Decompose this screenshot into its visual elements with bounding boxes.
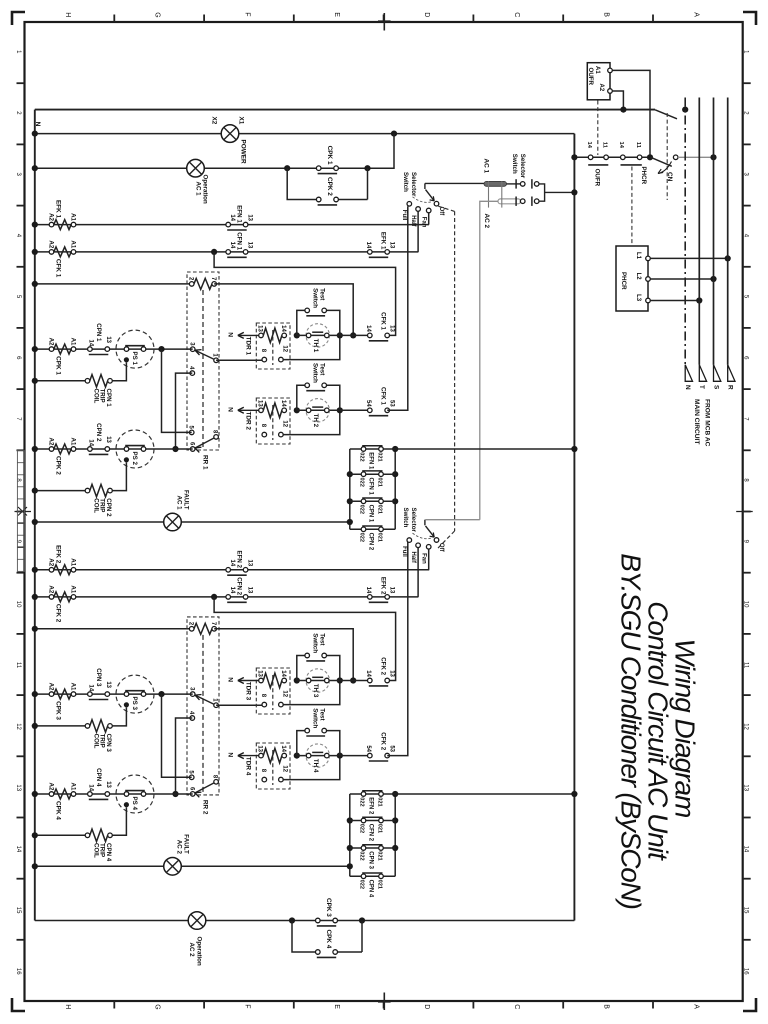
contact CFK1 13-14	[340, 312, 395, 341]
cam gang links	[489, 181, 502, 207]
svg-text:CPN 1: CPN 1	[95, 323, 102, 342]
svg-text:AC 2: AC 2	[483, 214, 490, 229]
svg-text:C: C	[513, 12, 520, 17]
svg-text:Half: Half	[410, 215, 416, 227]
svg-text:CFN 1: CFN 1	[236, 232, 243, 250]
svg-text:PHCR: PHCR	[620, 272, 627, 290]
coil CPK3	[48, 683, 77, 721]
wire RR1-4 riser	[172, 373, 192, 452]
svg-text:CPK 3: CPK 3	[55, 701, 62, 720]
contact EFK1 13-14 aux	[365, 232, 395, 257]
coil CPN4 TRIP COIL	[85, 807, 126, 861]
svg-text:13: 13	[105, 436, 111, 443]
svg-text:TH 1: TH 1	[312, 339, 319, 353]
svg-text:TDR 2: TDR 2	[244, 412, 251, 431]
svg-text:TH 2: TH 2	[312, 414, 319, 428]
svg-text:13: 13	[257, 325, 263, 332]
svg-text:D: D	[423, 12, 430, 17]
svg-text:14: 14	[618, 142, 624, 149]
coil CPN2 TRIP COIL	[85, 462, 126, 517]
svg-text:022: 022	[359, 824, 365, 833]
svg-text:Test: Test	[319, 708, 326, 720]
svg-text:14: 14	[15, 846, 21, 853]
svg-text:022: 022	[359, 478, 365, 487]
svg-text:13: 13	[257, 745, 263, 752]
svg-text:CPN 2: CPN 2	[95, 423, 102, 442]
contact CPN3 14-13	[88, 668, 112, 699]
svg-text:A1: A1	[70, 782, 77, 790]
pressure switch PS4	[116, 775, 154, 813]
wire rung to RR2-2	[32, 626, 192, 632]
wire L2 to phase S	[650, 276, 716, 282]
svg-text:12: 12	[282, 690, 288, 697]
svg-text:COIL: COIL	[92, 498, 99, 513]
svg-text:CFK 2: CFK 2	[380, 732, 387, 750]
svg-text:A1: A1	[70, 437, 77, 445]
svg-text:10: 10	[15, 601, 21, 608]
selector cam AC1 (pill)	[483, 159, 507, 187]
svg-text:R: R	[727, 385, 734, 390]
wire CPN3 trip coil rung	[32, 723, 88, 729]
contact EFN1 13-14	[226, 205, 253, 230]
disconnect CN blade upper	[655, 107, 688, 119]
svg-text:AC 2: AC 2	[175, 840, 182, 855]
svg-text:13: 13	[247, 214, 253, 221]
node tap to CFK1-13 riser	[211, 249, 396, 336]
svg-text:A1: A1	[70, 213, 77, 221]
wire power lamp rung	[32, 131, 575, 137]
wire FAULT AC1 rung	[32, 519, 350, 525]
pressure switch PS3	[116, 675, 154, 713]
wire top feed rung	[35, 109, 655, 111]
svg-text:EFN 1: EFN 1	[236, 205, 243, 223]
svg-text:14: 14	[365, 587, 371, 594]
coil CPK4	[48, 782, 77, 820]
svg-text:PS 1: PS 1	[131, 352, 138, 366]
svg-text:CFN 2: CFN 2	[367, 824, 373, 842]
svg-text:13: 13	[388, 325, 394, 332]
svg-text:021: 021	[376, 880, 382, 889]
svg-text:MAIN CIRCUIT: MAIN CIRCUIT	[693, 399, 700, 444]
node N label	[34, 122, 41, 127]
svg-text:14: 14	[88, 340, 94, 347]
wire rung to RR1-2	[32, 281, 192, 287]
svg-text:A1: A1	[70, 585, 77, 593]
svg-text:B: B	[603, 1004, 610, 1009]
svg-text:A: A	[692, 12, 699, 17]
label FROM MCB AC MAIN CIRCUIT	[693, 399, 711, 447]
wire CN to phase S	[678, 154, 717, 160]
svg-text:14: 14	[88, 784, 94, 791]
svg-text:EFK 1: EFK 1	[380, 232, 387, 250]
svg-text:Selector: Selector	[410, 172, 417, 197]
svg-text:14: 14	[229, 214, 235, 221]
contact CFN1 13-14	[226, 232, 253, 257]
lamp FAULT AC 1	[164, 490, 190, 531]
wire RR2-4 riser	[172, 718, 192, 797]
svg-text:Half: Half	[410, 552, 416, 564]
svg-text:13: 13	[247, 560, 253, 567]
svg-text:Test: Test	[319, 633, 326, 645]
svg-text:15: 15	[15, 907, 21, 914]
svg-text:13: 13	[247, 242, 253, 249]
contact CPK3 (self hold)	[289, 898, 365, 926]
mech link OUFR dashes	[597, 101, 599, 156]
time delay relay TDR2 and thermal TH2 with test switch	[227, 363, 343, 444]
coil CPK1	[48, 338, 77, 376]
time delay relay TDR4 and thermal TH4 with test switch	[227, 708, 343, 789]
svg-text:Switch: Switch	[312, 363, 319, 383]
title Wiring Diagram	[670, 639, 701, 818]
svg-text:16: 16	[15, 968, 21, 975]
svg-text:FROM MCB AC: FROM MCB AC	[703, 399, 710, 447]
svg-text:EFK 1: EFK 1	[55, 200, 62, 219]
svg-text:12: 12	[15, 723, 21, 730]
svg-text:Fan: Fan	[421, 553, 427, 564]
svg-text:021: 021	[376, 478, 382, 487]
svg-text:A1: A1	[70, 338, 77, 346]
svg-text:CFK 1: CFK 1	[380, 312, 387, 330]
pressure switch PS2	[116, 430, 154, 468]
svg-text:10: 10	[742, 601, 748, 608]
contact CFN2 13-14	[226, 577, 253, 602]
svg-text:CFK 1: CFK 1	[55, 259, 62, 278]
svg-text:022: 022	[359, 533, 365, 542]
svg-text:F: F	[243, 1004, 250, 1008]
svg-text:EFK 2: EFK 2	[55, 545, 62, 564]
svg-text:TH 4: TH 4	[312, 759, 319, 773]
svg-text:AC 1: AC 1	[483, 159, 490, 174]
title BY.SGU Conditioner (BySCoN)	[616, 553, 647, 909]
svg-text:F: F	[243, 12, 250, 16]
svg-text:13: 13	[15, 784, 21, 791]
svg-text:CPK 1: CPK 1	[326, 146, 333, 165]
svg-text:A2: A2	[48, 338, 55, 346]
svg-text:N: N	[227, 752, 234, 757]
svg-text:Switch: Switch	[312, 288, 319, 308]
node tap to CFK2-13 riser	[211, 594, 396, 681]
svg-text:022: 022	[359, 505, 365, 514]
revision strip table	[17, 451, 24, 572]
wire RR2-7 to TH3 node	[214, 629, 356, 684]
svg-text:CPN 4: CPN 4	[95, 768, 102, 787]
wire CFK1 rung	[32, 249, 419, 255]
svg-text:RR 2: RR 2	[201, 800, 208, 815]
svg-text:COIL: COIL	[92, 389, 99, 404]
svg-text:Switch: Switch	[511, 154, 518, 174]
lamp FAULT AC 2	[164, 834, 190, 875]
svg-text:14: 14	[742, 846, 748, 853]
svg-text:12: 12	[282, 765, 288, 772]
svg-text:N: N	[227, 677, 234, 682]
svg-text:H: H	[64, 1004, 71, 1009]
svg-text:TH 3: TH 3	[312, 684, 319, 698]
svg-text:COIL: COIL	[92, 843, 99, 858]
selector switch main contacts	[507, 154, 540, 206]
svg-text:PHCR: PHCR	[640, 167, 647, 185]
wire OUFR/PHCR contact line	[571, 154, 650, 160]
wire selector bracket to hot rail	[539, 184, 578, 201]
svg-text:CFK 1: CFK 1	[380, 387, 387, 405]
svg-text:Switch: Switch	[402, 172, 409, 192]
svg-text:OUFR: OUFR	[594, 169, 601, 187]
svg-text:14: 14	[229, 560, 235, 567]
svg-text:A2: A2	[598, 84, 604, 92]
svg-text:15: 15	[742, 907, 748, 914]
coil CPN3 TRIP COIL	[85, 707, 126, 752]
wire hot rail (right vertical)	[573, 134, 575, 921]
CN arc and label	[658, 162, 673, 182]
svg-text:TDR 4: TDR 4	[244, 757, 251, 776]
svg-text:14: 14	[280, 400, 286, 407]
contact EFK2 13-14 aux	[365, 577, 395, 602]
svg-text:CPN 4: CPN 4	[367, 880, 373, 898]
wire OUFR A2 to top rung	[612, 91, 626, 113]
rotary relay RR2	[187, 617, 219, 815]
svg-text:CPN 1: CPN 1	[367, 505, 373, 523]
svg-text:12: 12	[282, 420, 288, 427]
wire OUFR A1 to node	[612, 70, 653, 160]
svg-text:Off: Off	[438, 543, 444, 553]
wire CPK1/PS1 rung	[32, 346, 193, 352]
svg-text:021: 021	[376, 824, 382, 833]
wire FAULT AC2 rung	[32, 863, 350, 869]
svg-text:A1: A1	[70, 558, 77, 566]
svg-text:022: 022	[359, 851, 365, 860]
svg-text:E: E	[333, 1004, 340, 1009]
svg-text:AC 1: AC 1	[175, 496, 182, 511]
svg-text:14: 14	[229, 242, 235, 249]
svg-text:53: 53	[388, 745, 394, 752]
svg-text:A2: A2	[48, 437, 55, 445]
supply line R	[727, 98, 729, 365]
wire CFK2 rung	[32, 594, 419, 600]
svg-text:14: 14	[365, 670, 371, 677]
svg-text:Full: Full	[401, 546, 407, 557]
svg-text:CPK 4: CPK 4	[55, 801, 62, 820]
svg-text:Test: Test	[319, 288, 326, 300]
svg-text:13: 13	[105, 681, 111, 688]
contact CFK1 53-54	[340, 387, 395, 416]
supply line S	[713, 98, 715, 365]
svg-text:Full: Full	[401, 210, 407, 221]
svg-text:11: 11	[742, 662, 748, 669]
svg-text:AC 1: AC 1	[194, 182, 201, 197]
wire L1 to phase R	[650, 255, 731, 261]
svg-text:021: 021	[376, 505, 382, 514]
svg-text:022: 022	[359, 880, 365, 889]
svg-text:PS 2: PS 2	[131, 452, 138, 466]
svg-text:CPK 1: CPK 1	[55, 356, 62, 375]
contact CPN2 14-13	[88, 423, 112, 454]
svg-text:16: 16	[742, 968, 748, 975]
svg-text:14: 14	[88, 439, 94, 446]
svg-text:13: 13	[247, 587, 253, 594]
svg-text:COIL: COIL	[92, 734, 99, 749]
svg-text:BY.SGU Conditioner (BySCoN): BY.SGU Conditioner (BySCoN)	[616, 553, 647, 909]
svg-text:A1: A1	[70, 240, 77, 248]
svg-text:POWER: POWER	[239, 140, 246, 165]
title Control Circuit AC Unit	[643, 601, 674, 861]
svg-text:L2: L2	[635, 273, 641, 281]
svg-text:CN: CN	[666, 172, 673, 182]
svg-text:N: N	[34, 122, 41, 127]
svg-text:14: 14	[88, 685, 94, 692]
svg-text:CPK 4: CPK 4	[325, 929, 332, 948]
svg-text:12: 12	[742, 723, 748, 730]
wire operation AC1 rung	[32, 165, 368, 171]
svg-text:B: B	[603, 12, 610, 17]
arrow T	[698, 365, 706, 389]
svg-text:C: C	[513, 1004, 520, 1009]
svg-text:022: 022	[359, 797, 365, 806]
contact CFK2 53-54	[340, 732, 395, 761]
svg-text:EFN 2: EFN 2	[236, 550, 243, 568]
svg-text:TDR 1: TDR 1	[244, 337, 251, 356]
selector switch AC2 (Full/Half/Fan/Off)	[401, 508, 480, 565]
wire Off1 dashed link	[438, 206, 455, 548]
svg-text:Switch: Switch	[312, 708, 319, 728]
wire CPN1 trip coil rung	[32, 378, 88, 384]
wire Operation AC2 rung	[35, 920, 575, 922]
svg-text:Operation: Operation	[196, 937, 203, 966]
svg-text:H: H	[64, 12, 71, 17]
node PS1 out / RR1-5 branch	[158, 346, 191, 432]
svg-text:A: A	[692, 1004, 699, 1009]
svg-text:CFK 2: CFK 2	[380, 657, 387, 675]
svg-text:13: 13	[105, 336, 111, 343]
coil CPN1 TRIP COIL	[85, 362, 126, 407]
coil CFK1	[48, 240, 77, 277]
svg-text:14: 14	[280, 325, 286, 332]
svg-text:13: 13	[105, 781, 111, 788]
svg-text:Selector: Selector	[410, 508, 417, 533]
svg-text:13: 13	[388, 242, 394, 249]
svg-text:14: 14	[586, 142, 592, 149]
supply line T	[698, 98, 700, 365]
lamp Operation AC 1	[187, 159, 209, 204]
arrow R	[727, 365, 735, 390]
svg-text:53: 53	[388, 400, 394, 407]
svg-text:RR 1: RR 1	[201, 455, 208, 470]
node PS3 out / RR2-5 branch	[158, 691, 191, 777]
svg-text:AC 2: AC 2	[188, 943, 195, 958]
svg-text:54: 54	[365, 400, 371, 407]
svg-text:11: 11	[635, 142, 641, 149]
svg-text:CPN 2: CPN 2	[367, 533, 373, 551]
svg-text:EFK 2: EFK 2	[380, 577, 387, 595]
time delay relay TDR1 and thermal TH1 with test switch	[227, 288, 343, 369]
coil CFK2	[48, 585, 77, 622]
svg-text:EFN 1: EFN 1	[367, 452, 373, 470]
svg-text:E: E	[333, 12, 340, 17]
svg-text:N: N	[684, 385, 691, 390]
svg-text:13: 13	[388, 587, 394, 594]
wire Fan2 riser	[428, 549, 430, 570]
wire RR1-7 to TH1 node	[214, 284, 356, 339]
mech link CN dashes	[666, 113, 668, 200]
svg-text:N: N	[227, 332, 234, 337]
disconnect CN blade lower	[651, 155, 678, 166]
wire CPK2/PS2 rung	[32, 446, 193, 452]
coil EFK2	[48, 545, 77, 575]
svg-text:EFN 2: EFN 2	[367, 797, 373, 815]
wire CFK2-53 to Full2 riser	[387, 542, 408, 756]
svg-text:11: 11	[601, 142, 607, 149]
contact CPK1 (self hold)	[284, 146, 371, 174]
svg-text:FAULT: FAULT	[182, 834, 189, 854]
svg-text:14: 14	[365, 325, 371, 332]
svg-text:CPK 2: CPK 2	[326, 177, 333, 196]
svg-text:G: G	[154, 12, 161, 17]
svg-text:14: 14	[365, 242, 371, 249]
svg-text:PS 4: PS 4	[131, 797, 138, 811]
wire RR2-1 to TDR3-8	[216, 704, 264, 706]
svg-text:CPK 2: CPK 2	[55, 456, 62, 475]
wire Fan1 riser	[428, 213, 430, 225]
svg-text:A2: A2	[48, 213, 55, 221]
svg-text:CPN 3: CPN 3	[95, 668, 102, 687]
wire Half2 riser	[417, 548, 419, 597]
coil CPK2	[48, 437, 77, 475]
svg-text:Fan: Fan	[421, 217, 427, 228]
wire CPK3/PS3 rung	[32, 691, 193, 697]
svg-text:Switch: Switch	[312, 633, 319, 653]
selector cam AC2 (pill)	[483, 199, 521, 229]
contact OUFR 11-14	[586, 142, 609, 187]
svg-text:L3: L3	[635, 294, 641, 302]
svg-text:S: S	[712, 385, 719, 390]
wire CFK1-53 to Full riser	[387, 206, 408, 410]
svg-text:OUFR: OUFR	[587, 68, 594, 86]
svg-text:11: 11	[15, 662, 21, 669]
svg-text:54: 54	[365, 745, 371, 752]
svg-text:A2: A2	[48, 585, 55, 593]
mech link PHCR dashes	[631, 167, 633, 247]
wire EFK2 rung	[32, 567, 430, 573]
wire stack2 row1 to hot rail	[395, 791, 577, 797]
svg-text:13: 13	[257, 400, 263, 407]
svg-text:12: 12	[282, 345, 288, 352]
svg-text:Switch: Switch	[402, 508, 409, 528]
svg-text:14: 14	[229, 587, 235, 594]
aux contact stack EFN1/CFN1/CPN1/CPN2 (021-022)	[347, 446, 399, 551]
contact EFN2 13-14	[226, 550, 253, 575]
contact CPK2 (self hold)	[287, 168, 367, 205]
svg-text:A2: A2	[48, 558, 55, 566]
border scale ticks top/bottom	[114, 15, 653, 1009]
wire EFK1 rung	[32, 222, 429, 228]
svg-text:L1: L1	[635, 252, 641, 260]
contact PHCR 11-14	[618, 142, 647, 185]
svg-text:14: 14	[280, 745, 286, 752]
svg-text:CPN 3: CPN 3	[367, 851, 373, 869]
svg-text:PS 3: PS 3	[131, 697, 138, 711]
svg-text:022: 022	[359, 452, 365, 461]
svg-text:X2: X2	[211, 117, 218, 125]
svg-text:Test: Test	[319, 363, 326, 375]
wire N rail (left vertical)	[34, 110, 36, 921]
relay coil OUFR box	[587, 63, 612, 100]
arrow S	[712, 365, 720, 390]
coil EFK1	[48, 200, 77, 230]
wire CPN2 trip coil rung	[32, 488, 88, 494]
supply line N (dash-dot)	[684, 98, 686, 365]
wire CPN4 trip coil rung	[32, 832, 88, 838]
svg-text:A2: A2	[48, 782, 55, 790]
lamp Operation AC 2	[188, 912, 206, 966]
svg-text:G: G	[154, 1004, 161, 1009]
